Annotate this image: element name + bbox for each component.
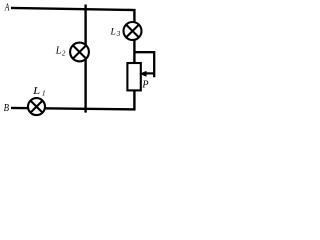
lamp L3	[124, 22, 142, 40]
wiper shaft	[146, 72, 154, 74]
lamp L2	[70, 43, 89, 62]
wire wiper branch from node below L3	[134, 52, 154, 77]
rheostat wiper arrowhead	[139, 71, 146, 77]
svg-text:1: 1	[42, 89, 46, 98]
svg-text:2: 2	[62, 50, 66, 58]
rheostat P body	[127, 63, 140, 90]
wire middle branch vertical with junction stubs	[84, 5, 86, 113]
svg-text:L: L	[110, 27, 116, 37]
svg-text:P: P	[141, 80, 148, 91]
wire top: A to top-right corner, down right side to bottom	[11, 8, 134, 110]
lamp L1	[28, 98, 45, 115]
svg-text:B: B	[4, 103, 10, 114]
svg-text:A: A	[4, 3, 10, 14]
wire bottom: B to right vertical	[11, 108, 135, 110]
svg-text:L: L	[32, 86, 41, 97]
svg-text:3: 3	[116, 30, 121, 38]
svg-text:L: L	[55, 46, 62, 57]
